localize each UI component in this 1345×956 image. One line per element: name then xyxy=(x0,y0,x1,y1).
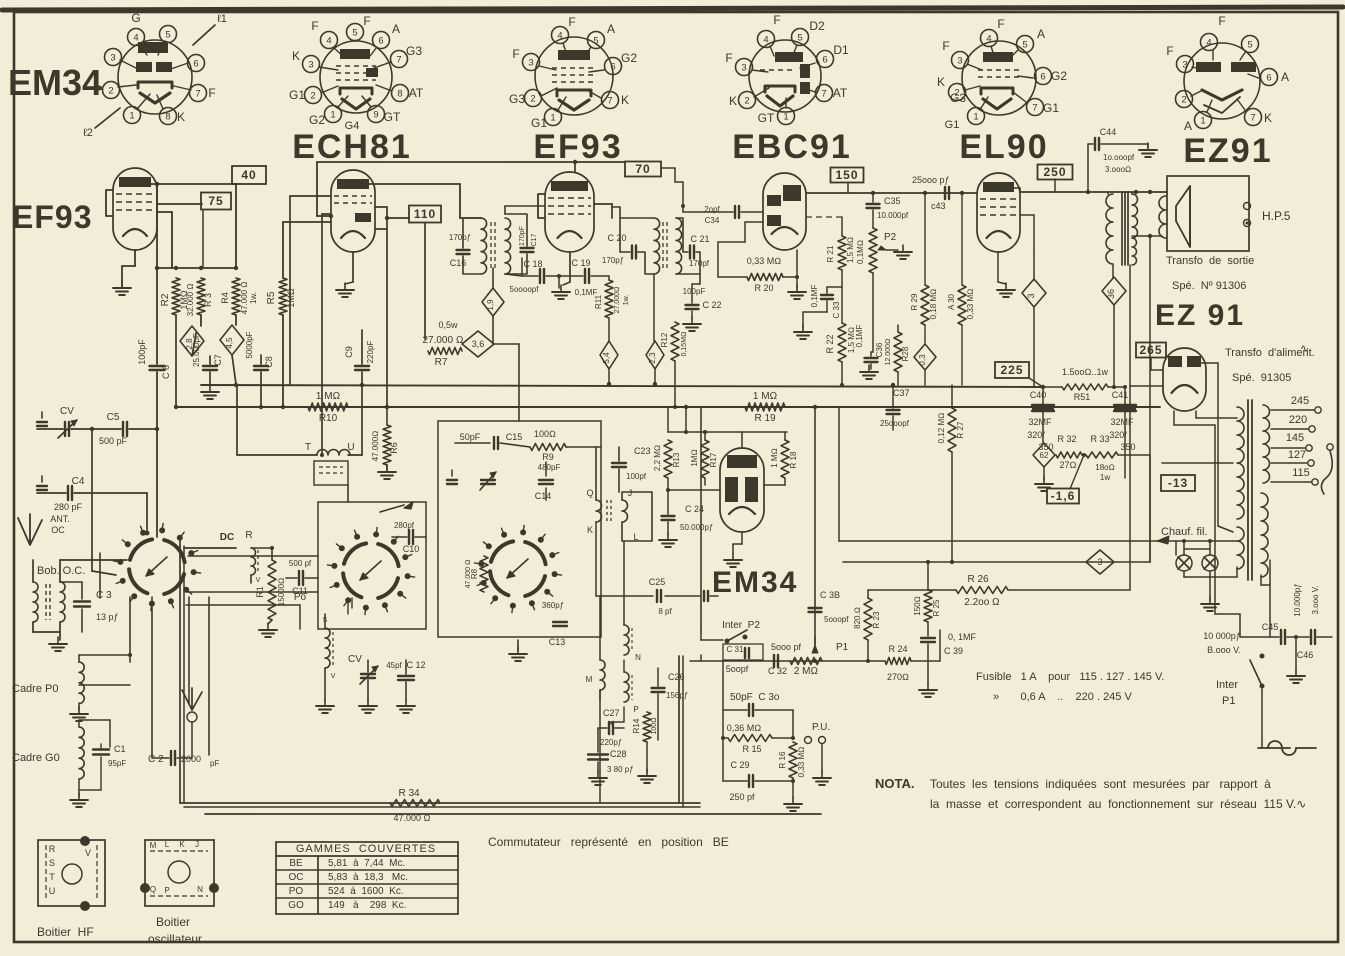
oscillator coil TU xyxy=(305,442,355,485)
resistor R2 xyxy=(160,278,189,315)
svg-text:500 pF: 500 pF xyxy=(99,436,128,446)
svg-text:V: V xyxy=(256,577,261,584)
svg-text:EF93: EF93 xyxy=(533,128,622,166)
wire C16 loop xyxy=(463,218,481,248)
switch Inter P2 xyxy=(725,639,730,644)
resistor R21 xyxy=(826,236,855,270)
wire R33 right xyxy=(1149,455,1151,562)
svg-text:150: 150 xyxy=(835,168,858,182)
svg-text:C46: C46 xyxy=(1297,650,1314,660)
svg-text:C1: C1 xyxy=(114,744,126,754)
EF93 pin 5 xyxy=(588,32,605,49)
EL90 base cathode cup xyxy=(981,88,1013,94)
svg-text:G2: G2 xyxy=(621,51,637,65)
wire IF1 sec bottom xyxy=(505,274,522,276)
small cap stub xyxy=(447,479,457,481)
svg-text:C28: C28 xyxy=(610,749,627,759)
wire R coil to R1 xyxy=(250,575,252,583)
svg-text:3: 3 xyxy=(110,53,115,64)
svg-text:F: F xyxy=(208,86,215,100)
svg-text:Spé. 91305: Spé. 91305 xyxy=(1232,372,1291,384)
trimmer CV osc xyxy=(348,654,378,684)
svg-text:500 pf: 500 pf xyxy=(289,559,312,568)
EM34 base target segments xyxy=(136,62,152,72)
svg-text:R: R xyxy=(49,844,56,854)
resistor R8 xyxy=(465,556,488,592)
svg-text:K: K xyxy=(1264,111,1272,125)
resistor R29 xyxy=(910,285,938,325)
svg-text:62: 62 xyxy=(1040,451,1049,460)
connector box Boitier osc xyxy=(145,840,214,906)
wire x157 to wafer1 xyxy=(156,429,158,537)
svg-text:0,1MF: 0,1MF xyxy=(810,285,819,308)
svg-text:ℓ2: ℓ2 xyxy=(83,127,93,139)
ground V1 cathode xyxy=(121,281,123,288)
wire C14 drop xyxy=(545,462,547,476)
diamond 2.3 xyxy=(646,341,664,369)
tube V7 EM34 xyxy=(720,448,764,532)
antenna small cap left xyxy=(37,428,63,430)
EM34 pin 4 xyxy=(128,29,145,46)
EBC91 pin 1 xyxy=(778,108,795,125)
ground R20 xyxy=(796,285,798,292)
wire R14 bottom xyxy=(646,742,648,772)
wire R25 top xyxy=(927,562,929,590)
resistor R18 xyxy=(770,440,798,478)
svg-text:0,1MΩ: 0,1MΩ xyxy=(856,240,865,264)
wire shield bottom xyxy=(180,802,700,804)
capacitor C20 xyxy=(602,233,636,265)
secteur symbol xyxy=(1258,747,1290,749)
ECH81 base grid dashes xyxy=(336,66,376,80)
wire 75 box drop xyxy=(202,210,204,268)
wire Cadre GO top xyxy=(78,720,80,727)
svg-text:170pƒ: 170pƒ xyxy=(602,256,624,265)
svg-text:V: V xyxy=(331,673,336,680)
svg-text:C13: C13 xyxy=(549,637,566,647)
capacitor C46 xyxy=(1297,630,1315,660)
svg-text:Po: Po xyxy=(294,592,307,603)
svg-text:32MF: 32MF xyxy=(1028,417,1052,427)
svg-text:C23: C23 xyxy=(634,446,651,456)
wire V1 plate to node xyxy=(150,183,236,185)
svg-text:0,33 MΩ: 0,33 MΩ xyxy=(747,256,782,266)
svg-text:R51: R51 xyxy=(1074,392,1091,402)
svg-text:G3: G3 xyxy=(509,92,525,106)
wire ant2 down xyxy=(191,722,193,758)
capacitor C35 xyxy=(867,196,909,220)
coil QK xyxy=(586,488,601,535)
wire OT sec top xyxy=(1131,192,1133,194)
svg-text:EZ 91: EZ 91 xyxy=(1155,299,1245,332)
svg-text:P: P xyxy=(164,886,169,895)
svg-text:R 27: R 27 xyxy=(956,421,965,438)
svg-text:3: 3 xyxy=(528,58,533,69)
Boitier HF dots xyxy=(80,836,90,846)
svg-text:5: 5 xyxy=(797,33,802,44)
capacitor C34 xyxy=(704,205,739,225)
Boitier HF circle xyxy=(62,864,82,884)
svg-text:0,15MΩ: 0,15MΩ xyxy=(681,332,688,357)
EM34 alpha2 pointer xyxy=(95,108,120,128)
wire EZ91 plate left xyxy=(1151,369,1163,371)
svg-text:P2: P2 xyxy=(884,232,897,243)
ground CV osc xyxy=(367,699,369,706)
svg-text:280 pF: 280 pF xyxy=(54,502,83,512)
wire heater winding link xyxy=(1232,540,1237,542)
wire V2 to 110 xyxy=(387,217,409,219)
svg-text:170pF: 170pF xyxy=(519,226,526,246)
wire P2 bottom xyxy=(872,273,874,352)
svg-text:C5: C5 xyxy=(107,412,120,423)
svg-text:32MF: 32MF xyxy=(1110,417,1134,427)
svg-text:100pF: 100pF xyxy=(683,287,706,296)
wire R28 xyxy=(897,325,899,332)
svg-text:3: 3 xyxy=(741,63,746,74)
svg-text:4,5: 4,5 xyxy=(225,337,234,349)
resistor R3 xyxy=(186,278,213,316)
svg-text:G: G xyxy=(131,11,140,25)
wire C46 gnd drop xyxy=(1295,637,1297,670)
wire d36 down xyxy=(1113,305,1115,387)
svg-text:Inter: Inter xyxy=(1216,679,1238,691)
svg-text:P1: P1 xyxy=(1222,695,1235,707)
wire C2 xyxy=(152,757,169,759)
svg-text:C34: C34 xyxy=(705,216,720,225)
svg-text:4: 4 xyxy=(133,33,138,44)
svg-text:U: U xyxy=(49,886,56,896)
EM34 pin 8 xyxy=(160,108,177,125)
wire IF1 sec top xyxy=(504,206,506,214)
wire C19 right xyxy=(591,275,609,277)
ground C28 xyxy=(597,771,599,778)
svg-text:1,5 MΩ: 1,5 MΩ xyxy=(846,237,855,263)
svg-text:oscillateur: oscillateur xyxy=(148,932,202,946)
svg-text:1w: 1w xyxy=(1100,473,1110,482)
wire wafer1 to wafer2 b xyxy=(188,591,318,593)
ECH81 pin 4 xyxy=(321,32,338,49)
svg-text:1MΩ: 1MΩ xyxy=(690,449,699,466)
svg-text:3,6: 3,6 xyxy=(472,339,485,349)
svg-text:Boitier: Boitier xyxy=(156,915,190,929)
EL90 pin 4 xyxy=(981,30,998,47)
wire N to L xyxy=(623,541,625,625)
wire V5 cathode xyxy=(997,252,999,282)
wire R21 xyxy=(841,217,843,236)
wire C24 xyxy=(667,490,669,514)
svg-text:1w.: 1w. xyxy=(249,292,258,304)
wire C45C46 bus xyxy=(1240,636,1279,638)
table header line xyxy=(276,855,458,857)
EL90 base grid dashes xyxy=(978,70,1020,77)
wire chauf arrow xyxy=(1157,540,1232,542)
svg-text:47.000Ω: 47.000Ω xyxy=(371,431,380,462)
svg-text:250: 250 xyxy=(1043,165,1066,179)
svg-text:C 19: C 19 xyxy=(571,258,590,268)
svg-text:Toutes les tensions indique: Toutes les tensions indiquées sont mesu… xyxy=(930,777,1271,791)
capacitor C24 xyxy=(662,504,714,532)
svg-text:360pƒ: 360pƒ xyxy=(542,601,564,610)
EZ91 pin 1 xyxy=(1195,112,1212,129)
lamp 2 xyxy=(1202,555,1218,571)
svg-text:R 33: R 33 xyxy=(1090,434,1109,444)
wire OT sec tap xyxy=(1132,235,1150,237)
svg-text:9: 9 xyxy=(373,110,378,121)
coil Cadre GO xyxy=(79,727,84,779)
coil Cadre PO xyxy=(79,662,84,704)
svg-text:R28: R28 xyxy=(901,346,910,361)
svg-text:K: K xyxy=(729,94,737,108)
EBC91 pin 2 xyxy=(739,92,756,109)
border top thick line xyxy=(2,7,1343,10)
tube base diagram EF93 circle xyxy=(535,37,613,115)
svg-text:F: F xyxy=(311,19,318,33)
wire V1 g3 xyxy=(157,211,172,213)
wire CV to C5 xyxy=(71,428,121,430)
svg-text:C27: C27 xyxy=(603,708,620,718)
output transformer core xyxy=(1121,192,1123,265)
speaker coil bumps xyxy=(1159,196,1166,238)
svg-text:7: 7 xyxy=(396,55,401,66)
diamond 62 xyxy=(1033,443,1055,467)
wire V1 screen to 75 box xyxy=(157,203,202,205)
svg-text:6: 6 xyxy=(1040,72,1045,83)
svg-text:DC: DC xyxy=(220,532,234,543)
wire bus AVC y385 xyxy=(201,385,1043,387)
EBC91 pin 3 xyxy=(736,59,753,76)
svg-text:820.Ω: 820.Ω xyxy=(853,607,862,629)
wire C21 loop xyxy=(676,218,688,252)
resistor R7 xyxy=(422,320,463,368)
coil M xyxy=(586,660,605,690)
svg-text:2: 2 xyxy=(310,91,315,102)
svg-text:A: A xyxy=(1037,27,1045,41)
wire R1 bottom xyxy=(268,620,272,624)
EF93 base heater chevron xyxy=(559,100,589,110)
capacitor C43 xyxy=(912,175,950,211)
resistor R6 xyxy=(371,425,399,465)
svg-text:100pf: 100pf xyxy=(626,472,647,481)
arrow into S2 xyxy=(404,502,413,509)
svg-text:2: 2 xyxy=(108,86,113,97)
svg-text:149 à 298 Kc.: 149 à 298 Kc. xyxy=(328,900,406,911)
coil P xyxy=(624,672,639,714)
wire R26 to x1130 xyxy=(1130,589,1132,591)
svg-text:R 25: R 25 xyxy=(932,599,941,616)
svg-text:R 34: R 34 xyxy=(398,788,420,799)
tap 220 xyxy=(1271,428,1308,430)
svg-text:5,4: 5,4 xyxy=(602,352,611,364)
svg-text:C 21: C 21 xyxy=(690,234,709,244)
EZ91 pin 6 xyxy=(1261,69,1278,86)
EL90 pin 5 xyxy=(1017,36,1034,53)
antenna symbol 2 xyxy=(182,688,202,710)
EM34 pin 3 xyxy=(105,49,122,66)
svg-text:8 pf: 8 pf xyxy=(658,607,672,616)
ECH81 pin 8 xyxy=(392,85,409,102)
svg-text:F: F xyxy=(568,15,575,29)
wire shield right xyxy=(678,656,680,803)
EBC91 pin 6 xyxy=(817,51,834,68)
wire EM34 grid xyxy=(668,489,720,491)
wire IF2 prim top xyxy=(619,207,621,218)
antenna symbol left xyxy=(18,514,42,545)
table column line xyxy=(317,856,319,914)
wire ECH81 triode grid bus xyxy=(317,161,624,163)
svg-text:350: 350 xyxy=(1120,442,1135,452)
wire M down xyxy=(599,690,601,803)
ground V2 xyxy=(344,283,346,290)
output transformer secondary lower xyxy=(1132,238,1137,265)
svg-text:225: 225 xyxy=(1000,363,1023,377)
svg-text:6: 6 xyxy=(378,36,383,47)
wire V4 cathode xyxy=(796,250,798,277)
EZ91 internal pin lines xyxy=(1192,67,1204,70)
svg-text:C 20: C 20 xyxy=(607,233,626,243)
capacitor C23 xyxy=(612,446,651,481)
svg-text:∿: ∿ xyxy=(1300,343,1309,355)
EBC91 base heater chevron xyxy=(767,96,793,106)
resistor R9 xyxy=(530,429,566,462)
svg-text:G1: G1 xyxy=(945,119,960,131)
ground C45C46 xyxy=(1295,669,1297,676)
EZ91 base heater chevron xyxy=(1202,90,1242,100)
svg-text:2.2oo Ω: 2.2oo Ω xyxy=(964,597,999,608)
ground R14 xyxy=(646,769,648,776)
svg-text:R 16: R 16 xyxy=(778,751,787,768)
svg-text:4: 4 xyxy=(326,36,331,47)
power transformer heater winding xyxy=(1237,527,1244,569)
potentiometer P2 xyxy=(856,228,898,273)
wire C30 loop xyxy=(722,698,724,738)
capacitor C7 xyxy=(192,333,223,370)
resistor R30 xyxy=(947,285,975,325)
EM34 internal pin lines xyxy=(120,60,140,70)
svg-text:K: K xyxy=(937,75,945,89)
svg-text:32.000 Ω: 32.000 Ω xyxy=(186,284,195,317)
svg-text:R 15: R 15 xyxy=(742,744,761,754)
EF93 pin 2 xyxy=(525,90,542,107)
svg-text:6: 6 xyxy=(610,62,615,73)
ground C18 C19 xyxy=(560,285,562,292)
svg-text:156pƒ: 156pƒ xyxy=(666,691,688,700)
svg-text:T: T xyxy=(305,442,311,453)
svg-text:13 pƒ: 13 pƒ xyxy=(96,612,119,622)
tube V2 ECH81 xyxy=(331,170,375,252)
capacitor C36 xyxy=(855,325,884,362)
diamond 0.3 xyxy=(914,344,936,370)
wire -13 center tap xyxy=(1162,462,1233,464)
svg-text:GO: GO xyxy=(288,900,304,911)
svg-text:F: F xyxy=(725,51,732,65)
V3 grid bracket xyxy=(538,194,545,218)
wire wafer2 stub xyxy=(347,600,349,614)
svg-text:C40: C40 xyxy=(1030,390,1047,400)
svg-text:40: 40 xyxy=(241,168,256,182)
capacitor C22 xyxy=(683,287,722,310)
wire R5 top xyxy=(282,222,284,278)
svg-text:R17: R17 xyxy=(709,452,718,467)
wire TU right xyxy=(348,454,362,456)
svg-text:1 MΩ: 1 MΩ xyxy=(770,448,779,467)
svg-text:F: F xyxy=(1218,14,1225,28)
svg-text:EM34: EM34 xyxy=(8,62,102,103)
svg-text:8: 8 xyxy=(397,89,402,100)
wire R13 bottom xyxy=(667,478,669,490)
tube V5 EL90 xyxy=(977,173,1020,252)
connector box Boitier HF xyxy=(38,840,105,906)
svg-text:C35: C35 xyxy=(884,196,901,206)
svg-text:3.oooΩ: 3.oooΩ xyxy=(1105,165,1131,174)
EZ91 pin 2 xyxy=(1176,91,1193,108)
wire lamp gnd xyxy=(1209,577,1211,600)
ECH81 internal pin lines xyxy=(319,67,338,70)
wire shield left xyxy=(179,541,181,803)
svg-text:F: F xyxy=(512,47,519,61)
capacitor C2 xyxy=(148,751,219,768)
ECH81 pin 6 xyxy=(373,32,390,49)
svg-text:2,3: 2,3 xyxy=(648,352,657,364)
EM34 pin 1 xyxy=(124,107,141,124)
svg-text:L: L xyxy=(165,840,170,849)
svg-text:C 18: C 18 xyxy=(523,259,542,269)
wire V2 grid left xyxy=(290,195,331,197)
resistor R31 xyxy=(1062,367,1108,402)
wire lamps top xyxy=(1175,541,1177,555)
svg-text:6: 6 xyxy=(822,55,827,66)
tap 115 xyxy=(1271,481,1311,483)
svg-text:3 80 pƒ: 3 80 pƒ xyxy=(607,765,634,774)
svg-text:R 19: R 19 xyxy=(754,413,776,424)
wire PU gnd xyxy=(821,744,823,772)
ground P2 wiper xyxy=(902,245,904,252)
resistor R1 xyxy=(255,560,286,620)
wire N to P xyxy=(623,660,625,672)
wire V4 diode2 xyxy=(745,221,763,223)
capacitor C5 xyxy=(99,412,128,446)
capacitor C27 xyxy=(600,708,622,747)
wire 225 link xyxy=(1029,378,1043,387)
wire JL loop xyxy=(622,492,652,541)
EF93 pin 1 xyxy=(545,109,562,126)
resistor R32 xyxy=(1056,434,1082,470)
wire bus to fusible xyxy=(700,407,702,632)
svg-text:AT: AT xyxy=(409,86,424,100)
ground C22 xyxy=(691,317,693,324)
wire DC pair xyxy=(184,547,236,549)
capacitor C3 xyxy=(74,590,119,622)
wire V2 gnd link xyxy=(345,282,353,284)
svg-text:3: 3 xyxy=(957,56,962,67)
C25 stub cap xyxy=(703,591,705,601)
wire diamond3a xyxy=(1033,252,1035,280)
svg-text:1: 1 xyxy=(973,112,978,123)
svg-text:-13: -13 xyxy=(1168,476,1188,490)
svg-text:C 12: C 12 xyxy=(406,660,425,670)
resistor R17 xyxy=(690,440,718,478)
svg-text:0,33 MΩ: 0,33 MΩ xyxy=(797,747,806,778)
svg-text:CV: CV xyxy=(348,654,362,665)
ground Po xyxy=(324,699,326,706)
wire sect xyxy=(1261,740,1263,748)
svg-text:5: 5 xyxy=(593,36,598,47)
svg-text:c43: c43 xyxy=(931,201,946,211)
wire IF2 sec tap xyxy=(699,274,701,284)
svg-text:R 26: R 26 xyxy=(967,574,989,585)
resistor R13 xyxy=(653,440,681,478)
svg-text:F: F xyxy=(773,13,780,27)
EZ91 pin 3 xyxy=(1177,56,1194,73)
